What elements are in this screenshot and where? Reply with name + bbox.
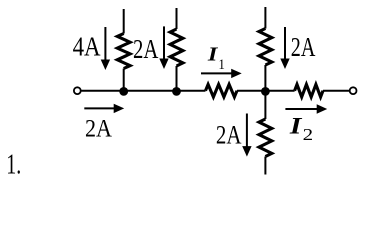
svg-text:I: I [289, 113, 303, 138]
svg-text:2A: 2A [216, 119, 242, 149]
svg-text:4A: 4A [73, 31, 101, 61]
svg-text:2A: 2A [291, 32, 316, 62]
svg-text:2A: 2A [133, 34, 159, 64]
svg-text:1.: 1. [6, 150, 21, 181]
svg-text:1: 1 [218, 57, 225, 73]
svg-text:2: 2 [303, 125, 314, 144]
svg-text:I: I [207, 45, 220, 66]
svg-text:2A: 2A [85, 113, 113, 142]
